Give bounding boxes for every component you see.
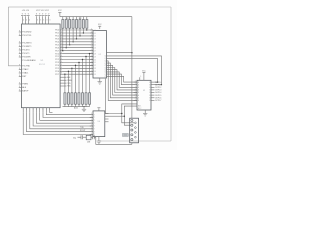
U3 right pins with labels	[151, 82, 161, 102]
svg-text:U2: U2	[99, 54, 101, 56]
resistor RP2 element 4	[74, 93, 76, 104]
wire P1.0 staircase to U4	[23, 113, 93, 135]
resistor RP1 element 1	[62, 17, 64, 20]
svg-text:B: B	[149, 87, 150, 89]
mcu U1 89C52 body	[22, 24, 61, 108]
svg-text:P1.0-BUS/AD0: P1.0-BUS/AD0	[22, 59, 36, 62]
svg-text:D1: D1	[94, 62, 96, 64]
svg-text:3: 3	[37, 20, 38, 22]
wire pull-up 7 drop to P0 bus	[82, 28, 84, 33]
svg-text:P2.4: P2.4	[55, 65, 59, 67]
svg-text:T: T	[94, 126, 95, 128]
svg-text:9: 9	[19, 72, 20, 74]
svg-text:3: 3	[47, 20, 48, 22]
resistor RP1 element 7	[82, 17, 84, 20]
svg-text:P0.0: P0.0	[55, 30, 59, 32]
wire P1.2 staircase to U4	[30, 113, 93, 129]
svg-text:9: 9	[19, 90, 20, 92]
svg-text:9: 9	[19, 83, 20, 85]
svg-text:ALE: ALE	[67, 76, 71, 79]
wire U2 output 1 staircase to U3	[107, 61, 138, 101]
svg-text:D8: D8	[94, 53, 96, 55]
capacitor C2	[91, 136, 93, 138]
wire VCC net left drop to U1 pin	[8, 7, 21, 66]
svg-text:3: 3	[43, 20, 44, 22]
svg-text:D7/P1.7: D7/P1.7	[155, 100, 161, 102]
wires P2 bus U1 to U2 lower	[63, 54, 93, 75]
svg-text:B: B	[149, 82, 150, 84]
svg-text:ALE: ALE	[22, 86, 27, 89]
svg-text:RXD: RXD	[67, 86, 71, 88]
svg-text:T: T	[94, 129, 95, 131]
svg-text:D4: D4	[94, 71, 96, 73]
wire U3 lower pin to connector line A	[122, 104, 137, 123]
svg-text:PSEN: PSEN	[67, 80, 72, 82]
svg-text:D9: D9	[94, 56, 96, 58]
svg-text:D5/P1.5: D5/P1.5	[155, 95, 161, 97]
svg-text:B: B	[149, 98, 150, 100]
wire P1.3 staircase to U4	[33, 113, 93, 126]
U3 left pin stubs	[134, 81, 138, 101]
svg-text:P3.1/TXD: P3.1/TXD	[22, 35, 31, 37]
wire U2 output 3 staircase to U3	[107, 65, 138, 95]
svg-text:D5: D5	[94, 74, 96, 76]
resistor RP1 element 5	[76, 17, 78, 20]
wire U2 output 2 staircase to U3	[107, 63, 138, 98]
svg-text:9: 9	[19, 34, 20, 36]
svg-text:P0.3: P0.3	[55, 39, 59, 41]
latch U2 left pin stubs	[90, 29, 93, 75]
svg-text:B: B	[149, 90, 150, 92]
resistor RP1 element 8	[86, 17, 88, 20]
svg-text:D4: D4	[94, 42, 96, 44]
svg-text:A: A	[138, 97, 139, 100]
crystal Y1	[86, 135, 91, 140]
stub of ninth bottom pin	[50, 112, 53, 114]
wire P1.1 staircase to U4	[27, 113, 94, 132]
svg-text:+5V +5V: +5V +5V	[22, 10, 30, 12]
svg-text:P3.6/WR: P3.6/WR	[22, 57, 31, 59]
resistor RP2 element 1	[64, 93, 66, 104]
svg-text:12M: 12M	[87, 141, 91, 143]
svg-text:T: T	[94, 114, 95, 116]
svg-text:XTAL2: XTAL2	[22, 68, 29, 71]
svg-text:B: B	[149, 84, 150, 86]
svg-text:D1: D1	[94, 33, 96, 35]
wire long vertical net to connector	[131, 17, 133, 119]
svg-text:P0.2: P0.2	[55, 36, 59, 38]
wire P1.5 staircase to U4	[40, 113, 93, 121]
resistor RP1 element 3	[69, 17, 71, 20]
svg-text:9: 9	[19, 86, 20, 88]
svg-text:9: 9	[19, 68, 20, 70]
svg-text:4: 4	[23, 20, 24, 22]
svg-text:P2.0: P2.0	[55, 53, 59, 55]
svg-text:9: 9	[19, 56, 20, 58]
svg-text:T: T	[94, 120, 95, 122]
wire U2 output 4 staircase to U3	[107, 68, 138, 93]
wire P1.7 staircase to U4	[46, 113, 93, 115]
svg-text:D7: D7	[94, 51, 96, 53]
wire U2 output 8 staircase to U3	[107, 76, 138, 82]
svg-text:P2.6: P2.6	[55, 71, 59, 73]
svg-text:VCC: VCC	[58, 10, 62, 12]
wire connector bottom drop	[131, 143, 133, 145]
svg-text:A: A	[138, 81, 139, 84]
memory U3 body	[137, 80, 151, 110]
svg-text:T: T	[94, 123, 95, 125]
connector J1 pins right column	[135, 122, 137, 124]
svg-text:EA/VP: EA/VP	[22, 90, 29, 93]
U3 internal pin names	[138, 81, 151, 102]
svg-text:1: 1	[43, 109, 44, 111]
svg-text:30p: 30p	[73, 137, 76, 139]
wire P2 branch 1 down to RP2	[89, 54, 91, 93]
resistor RP2 element 8	[89, 93, 91, 104]
svg-text:89C52: 89C52	[39, 64, 46, 66]
svg-text:102: 102	[66, 18, 69, 20]
wire P2 branch 4 down to RP2	[78, 63, 80, 93]
resistor RP2 element 5	[78, 93, 80, 104]
svg-text:P2.2: P2.2	[55, 59, 59, 61]
svg-text:P0.1: P0.1	[55, 33, 59, 35]
svg-text:D2: D2	[94, 36, 96, 38]
wire P2 branch 3 down to RP2	[82, 60, 84, 93]
svg-text:1: 1	[26, 109, 27, 111]
label box near connector	[123, 134, 129, 137]
svg-text:9: 9	[19, 49, 20, 51]
wire P1.4 staircase to U4	[36, 113, 93, 124]
wire pull-up 3 drop to P0 bus	[69, 28, 71, 45]
svg-text:4: 4	[26, 20, 27, 22]
svg-text:B: B	[149, 100, 150, 102]
resistor RP2 element 7	[85, 93, 87, 104]
latch U2 74LS373 body	[93, 31, 107, 78]
wire pull-up 1 drop to P0 bus	[62, 28, 64, 51]
svg-text:P2.5: P2.5	[55, 68, 59, 70]
wire U2 output 6 staircase to U3	[107, 72, 138, 87]
svg-text:TXD: TXD	[67, 83, 71, 85]
resistor RP1 element 4	[72, 17, 74, 20]
svg-text:1: 1	[23, 109, 24, 111]
svg-text:RST: RST	[22, 76, 27, 78]
power symbol VCC for RP1	[59, 13, 61, 17]
bottom pins of U1 port1	[22, 108, 24, 113]
wire RP2 common rail	[63, 106, 90, 108]
svg-text:U3: U3	[143, 90, 145, 92]
ground pin bottom of U2	[99, 78, 101, 82]
svg-text:D3: D3	[94, 68, 96, 70]
wire P2 branch 8 down to RP2	[64, 74, 66, 93]
resistor RP2 element 3	[71, 93, 73, 104]
svg-text:D6: D6	[94, 48, 96, 50]
svg-text:B: B	[149, 95, 150, 97]
power pins top group B of U1	[36, 16, 38, 24]
svg-text:R1OUT: R1OUT	[80, 130, 85, 132]
wire pull-up 6 drop to P0 bus	[79, 28, 81, 36]
left pins of U1 with names	[19, 31, 22, 33]
wire serial from U4 side B	[109, 115, 125, 117]
svg-text:9: 9	[19, 45, 20, 47]
wire net right side vertical	[170, 7, 172, 141]
wire VCC net top rail across sheet	[8, 6, 100, 8]
svg-text:9: 9	[19, 52, 20, 54]
svg-text:1: 1	[49, 109, 50, 111]
right pins of U1 port0 and port2	[60, 29, 63, 31]
wire U2 output 7 staircase to U3	[107, 74, 138, 85]
connector J1 DB9 body	[130, 118, 139, 143]
svg-text:B1 2: B1 2	[138, 108, 141, 110]
svg-text:102: 102	[79, 18, 82, 20]
svg-text:P3.0/RXD: P3.0/RXD	[22, 32, 32, 34]
svg-text:1: 1	[33, 109, 34, 111]
svg-text:D3: D3	[94, 39, 96, 41]
svg-text:A102: A102	[74, 107, 78, 110]
svg-text:P0.4: P0.4	[55, 42, 59, 44]
svg-text:1: 1	[39, 109, 40, 111]
svg-text:1: 1	[141, 76, 142, 78]
svg-text:B: B	[149, 92, 150, 94]
svg-text:P2.7: P2.7	[55, 74, 59, 76]
power pin top of U3	[143, 73, 145, 81]
svg-text:1: 1	[29, 109, 30, 111]
svg-text:9: 9	[19, 42, 20, 44]
svg-text:A: A	[138, 83, 139, 86]
wire pull-up 8 drop to P0 bus	[86, 28, 88, 30]
wire U2 to U3 right pin2 long run	[107, 56, 162, 85]
wire P1.6 staircase to U4	[43, 113, 93, 118]
svg-text:D5: D5	[94, 45, 96, 47]
svg-text:1: 1	[36, 109, 37, 111]
U4 internal pin names	[94, 114, 95, 136]
U4 left pin stubs	[90, 113, 93, 135]
resistor RP2 element 6	[82, 93, 84, 104]
wires P0 bus U1 to U2	[63, 30, 93, 51]
svg-text:P0.6: P0.6	[55, 47, 59, 49]
svg-text:A: A	[138, 94, 139, 97]
svg-text:D2: D2	[94, 65, 96, 67]
svg-text:U4: U4	[98, 121, 100, 123]
svg-text:P3.2/INT0: P3.2/INT0	[22, 43, 32, 45]
svg-text:VCC VCC VCC: VCC VCC VCC	[36, 10, 50, 12]
svg-text:P0.5: P0.5	[55, 45, 59, 47]
svg-text:P3.4/T0: P3.4/T0	[22, 50, 30, 52]
svg-text:D0: D0	[94, 59, 96, 61]
svg-text:P0.7: P0.7	[55, 50, 59, 52]
svg-text:B0 1: B0 1	[138, 106, 141, 108]
svg-text:VCC: VCC	[98, 24, 102, 26]
latch U2 internal pin names	[94, 30, 107, 78]
wire pull-up 4 drop to P0 bus	[72, 28, 74, 42]
svg-text:A: A	[138, 91, 139, 94]
svg-text:D0: D0	[94, 30, 96, 32]
svg-text:P2.3: P2.3	[55, 62, 59, 64]
second top stub of U3	[139, 77, 141, 80]
svg-text:9: 9	[19, 75, 20, 77]
svg-text:P3.7/RD: P3.7/RD	[22, 66, 30, 68]
wire pull-up 5 drop to P0 bus	[76, 28, 78, 39]
resistor RP1 element 2	[65, 17, 67, 20]
svg-text:P3.5/T1: P3.5/T1	[22, 53, 30, 55]
svg-text:9: 9	[19, 31, 20, 33]
power pin top of U4	[98, 108, 100, 111]
wire P2 branch 6 down to RP2	[71, 68, 73, 93]
svg-text:T: T	[94, 117, 95, 119]
svg-text:4: 4	[29, 20, 30, 22]
svg-text:1: 1	[46, 109, 47, 111]
wire pull-up 2 drop to P0 bus	[65, 28, 67, 48]
wire P2 branch 5 down to RP2	[75, 65, 77, 92]
wire U2 to U3 right pin1 long run	[107, 58, 158, 82]
wire U3 lower pin to connector line B	[124, 106, 137, 125]
resistor RP2 element 2	[67, 93, 69, 104]
ground of RP2	[83, 107, 85, 110]
svg-text:PSEN: PSEN	[22, 84, 28, 86]
wire P2 branch 2 down to RP2	[85, 57, 87, 93]
svg-text:A: A	[138, 89, 139, 92]
U4 right pin stubs	[105, 114, 109, 122]
svg-text:XTAL1: XTAL1	[22, 72, 29, 75]
short wires U1 lower right with net labels	[60, 76, 66, 78]
resistor RP1 element 6	[79, 17, 81, 20]
svg-text:A: A	[138, 99, 139, 102]
svg-text:P3.3/INT1: P3.3/INT1	[22, 46, 32, 48]
wire P2 branch 7 down to RP2	[67, 71, 69, 93]
wire serial from U4 side A	[106, 79, 122, 114]
wire U2 output 5 staircase to U3	[107, 70, 138, 90]
ground pin bottom of U4	[98, 137, 100, 141]
control wire from U2 to vertical net	[107, 52, 132, 54]
power pins top group A of U1	[21, 16, 23, 24]
svg-text:VCC: VCC	[142, 70, 146, 72]
svg-text:9: 9	[19, 64, 20, 66]
wire VCC rail of RP1 extending right	[60, 16, 132, 18]
wire crystal to ground run	[96, 137, 132, 144]
svg-text:A: A	[138, 86, 139, 89]
svg-text:3: 3	[40, 20, 41, 22]
svg-text:T: T	[94, 131, 95, 133]
wire net bottom right segment	[99, 140, 171, 142]
ground pin bottom of U3	[144, 110, 146, 114]
connector J1 pins left column	[131, 119, 133, 121]
svg-text:P2.1: P2.1	[55, 56, 59, 58]
svg-text:1: 1	[91, 73, 92, 75]
svg-text:3: 3	[50, 20, 51, 22]
driver U4 MAX232 body	[93, 111, 105, 137]
power pin top of U2	[99, 27, 101, 29]
svg-text:U1: U1	[41, 60, 45, 62]
